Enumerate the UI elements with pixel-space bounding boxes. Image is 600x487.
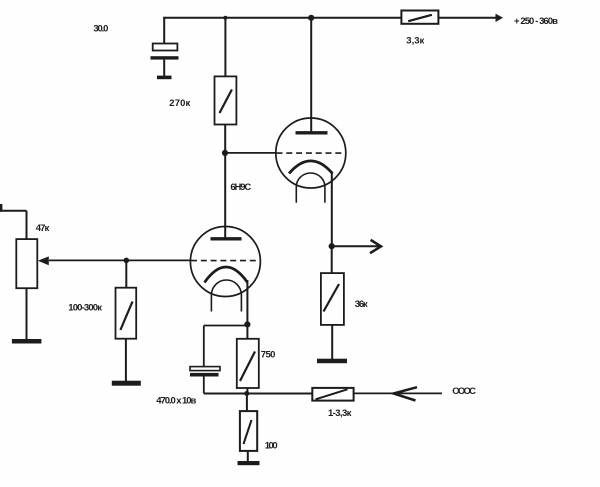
svg-text:1-3,3к: 1-3,3к <box>328 408 352 419</box>
svg-text:+ 250 - 360в: + 250 - 360в <box>514 16 558 27</box>
svg-text:ОООС: ОООС <box>452 386 476 397</box>
svg-text:100: 100 <box>265 440 278 451</box>
svg-text:100-300к: 100-300к <box>68 303 102 314</box>
svg-text:470.0 х 10в: 470.0 х 10в <box>156 396 196 407</box>
svg-text:47к: 47к <box>36 223 50 234</box>
svg-text:30.0: 30.0 <box>93 24 108 35</box>
svg-text:750: 750 <box>261 350 276 361</box>
svg-text:6Н9С: 6Н9С <box>230 182 251 193</box>
svg-text:36к: 36к <box>355 299 368 310</box>
svg-text:270к: 270к <box>169 98 190 109</box>
svg-text:3,3к: 3,3к <box>406 36 424 47</box>
